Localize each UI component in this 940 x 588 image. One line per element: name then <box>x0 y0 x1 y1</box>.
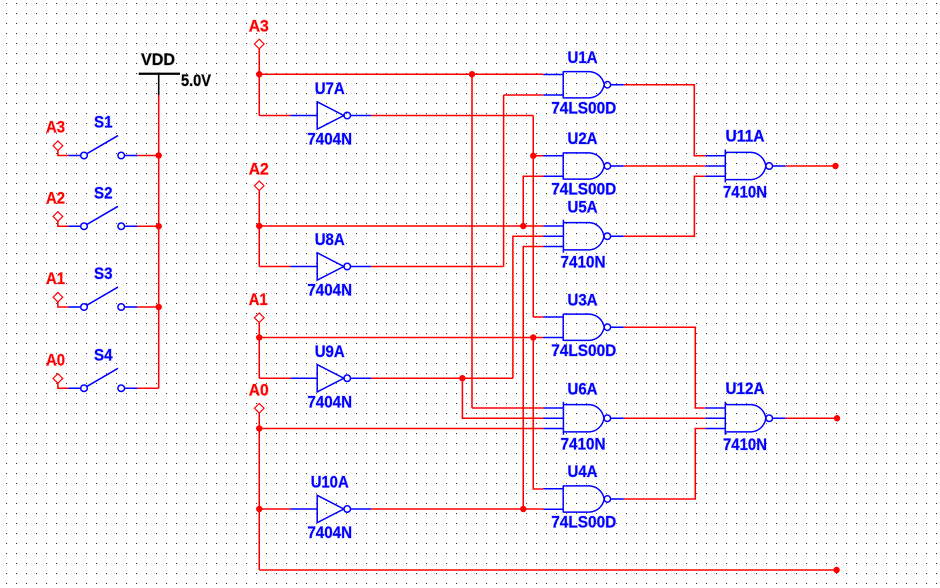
inverter U9A 7404N <box>290 365 371 392</box>
svg-text:U1A: U1A <box>568 48 598 67</box>
wire A0 vertical <box>258 413 260 570</box>
junction /A3 at U2A input 1 <box>530 153 536 159</box>
wire U8A output <box>371 266 504 268</box>
svg-text:A2: A2 <box>46 188 65 207</box>
svg-text:S3: S3 <box>94 264 113 283</box>
nand gate U5A 7410N <box>543 220 623 253</box>
wire A3 branch vertical <box>471 74 473 408</box>
svg-text:74LS00D: 74LS00D <box>551 98 616 117</box>
junction A3 branch <box>469 71 475 77</box>
wire U9A output <box>371 377 513 379</box>
svg-text:A2: A2 <box>249 160 269 179</box>
junction S2-VDD <box>156 223 162 229</box>
svg-text:S4: S4 <box>94 345 113 364</box>
wire U11A output <box>786 165 836 167</box>
wire /A3 to U3A input 1 <box>533 316 543 318</box>
svg-text:U2A: U2A <box>568 129 598 148</box>
svg-text:U4A: U4A <box>568 462 598 481</box>
svg-text:U11A: U11A <box>726 127 765 146</box>
svg-text:7404N: 7404N <box>307 281 352 300</box>
wire /A1 to U5A input 2 <box>513 236 544 378</box>
svg-text:S2: S2 <box>94 183 113 202</box>
wire /A3 vertical <box>532 116 534 318</box>
wire A3 to U6A input 1 <box>472 407 543 409</box>
wire A1 to U9A input <box>259 377 290 379</box>
junction S3-VDD <box>156 304 162 310</box>
wire U2A output <box>624 165 706 167</box>
svg-text:A1: A1 <box>46 269 65 288</box>
svg-text:S1: S1 <box>94 113 113 132</box>
junction A1 branch <box>530 334 536 340</box>
svg-text:7404N: 7404N <box>307 392 352 411</box>
wire A3 to U1A input 1 <box>259 73 543 75</box>
connector A2 diamond <box>53 212 63 222</box>
inverter U10A 7404N <box>290 495 371 522</box>
net endpoint U11A output <box>832 163 838 169</box>
svg-text:U12A: U12A <box>726 379 765 398</box>
connector A1 diamond <box>53 292 63 302</box>
svg-text:7410N: 7410N <box>723 183 767 202</box>
wire A1 to U3A input 2 <box>259 337 543 339</box>
junction A1 <box>256 334 262 340</box>
wire A2 to U8A input <box>259 266 290 268</box>
switch S4 <box>58 368 159 391</box>
junction S1-VDD <box>156 152 162 158</box>
nand gate U12A 7410N <box>705 402 785 435</box>
svg-text:U7A: U7A <box>315 79 345 98</box>
svg-text:7410N: 7410N <box>723 435 767 454</box>
svg-text:U3A: U3A <box>568 290 598 309</box>
wire A3 vertical <box>258 49 260 116</box>
switch S2 <box>58 206 159 229</box>
svg-text:U8A: U8A <box>315 230 345 249</box>
wire A0 bottom run <box>259 569 836 571</box>
wire /A1 to U6A input 2 <box>462 378 543 418</box>
net endpoint A0 bottom <box>833 567 839 573</box>
inverter U7A 7404N <box>290 102 371 129</box>
wire A2 to U5A input 1 <box>259 225 543 227</box>
wire U5A output <box>624 176 706 236</box>
junction A3 <box>256 71 262 77</box>
svg-text:A1: A1 <box>249 290 268 309</box>
nand gate U3A 74LS00D <box>543 314 624 341</box>
wire U7A output <box>371 115 533 117</box>
nand gate U2A 74LS00D <box>543 153 624 180</box>
svg-text:U6A: U6A <box>568 379 598 398</box>
wire U1A output <box>624 85 706 156</box>
inverter U8A 7404N <box>290 253 371 280</box>
switch S3 <box>58 287 159 310</box>
wire A3 to U7A input <box>259 115 290 117</box>
wire A2 branch to U2A input 2 <box>523 176 543 226</box>
svg-text:U10A: U10A <box>311 473 349 492</box>
svg-text:A3: A3 <box>249 16 269 35</box>
wire A2 vertical <box>258 190 260 266</box>
connector A1 diamond <box>254 313 264 323</box>
svg-text:7410N: 7410N <box>561 252 606 271</box>
junction /A0 <box>520 506 526 512</box>
nand gate U6A 7410N <box>543 402 623 435</box>
svg-text:74LS00D: 74LS00D <box>551 180 616 199</box>
wire /A2 to U1A input 2 <box>504 94 543 96</box>
net endpoint U12A output <box>834 415 840 421</box>
svg-text:74LS00D: 74LS00D <box>551 341 616 360</box>
svg-text:A0: A0 <box>249 380 269 399</box>
connector A3 diamond <box>254 39 264 49</box>
power supply VDD symbol <box>139 73 180 75</box>
svg-text:U9A: U9A <box>315 342 345 361</box>
svg-text:7404N: 7404N <box>307 130 352 149</box>
connector A0 diamond <box>254 403 264 413</box>
svg-text:5.0V: 5.0V <box>181 71 212 90</box>
connector A0 diamond <box>53 374 63 384</box>
junction A0 branch <box>256 506 262 512</box>
junction /A1 <box>459 375 465 381</box>
svg-text:7410N: 7410N <box>561 434 606 453</box>
wire /A2 vertical <box>503 95 505 267</box>
svg-text:VDD: VDD <box>141 50 175 69</box>
connector A3 diamond <box>53 141 63 151</box>
connector A2 diamond <box>254 181 264 191</box>
wire A1 branch to U4A input 1 <box>533 338 543 490</box>
nand gate U4A 74LS00D <box>543 486 624 513</box>
wire U6A output <box>624 417 706 419</box>
svg-text:A3: A3 <box>46 118 65 137</box>
wire /A0 to U5A input 3 <box>523 247 543 510</box>
junction A0 <box>256 425 262 431</box>
wire A0 to U10A input <box>259 508 290 510</box>
wire U3A output <box>624 327 706 408</box>
junction A2 branch <box>520 223 526 229</box>
svg-text:A0: A0 <box>46 350 65 369</box>
wire A0 to U6A input 3 <box>259 428 543 430</box>
svg-text:74LS00D: 74LS00D <box>551 513 616 532</box>
wire U10A output to U4A input 2 <box>371 508 543 510</box>
svg-text:U5A: U5A <box>568 197 598 216</box>
wire U4A output <box>624 429 706 500</box>
nand gate U11A 7410N <box>705 150 785 183</box>
svg-text:7404N: 7404N <box>307 523 352 542</box>
switch S1 <box>58 136 159 159</box>
wire /A3 to U2A input 1 <box>533 155 543 157</box>
wire U12A output <box>786 417 837 419</box>
wire A1 vertical <box>258 322 260 378</box>
wire VDD rail <box>158 95 160 388</box>
junction A2 <box>256 223 262 229</box>
nand gate U1A 74LS00D <box>543 71 624 98</box>
